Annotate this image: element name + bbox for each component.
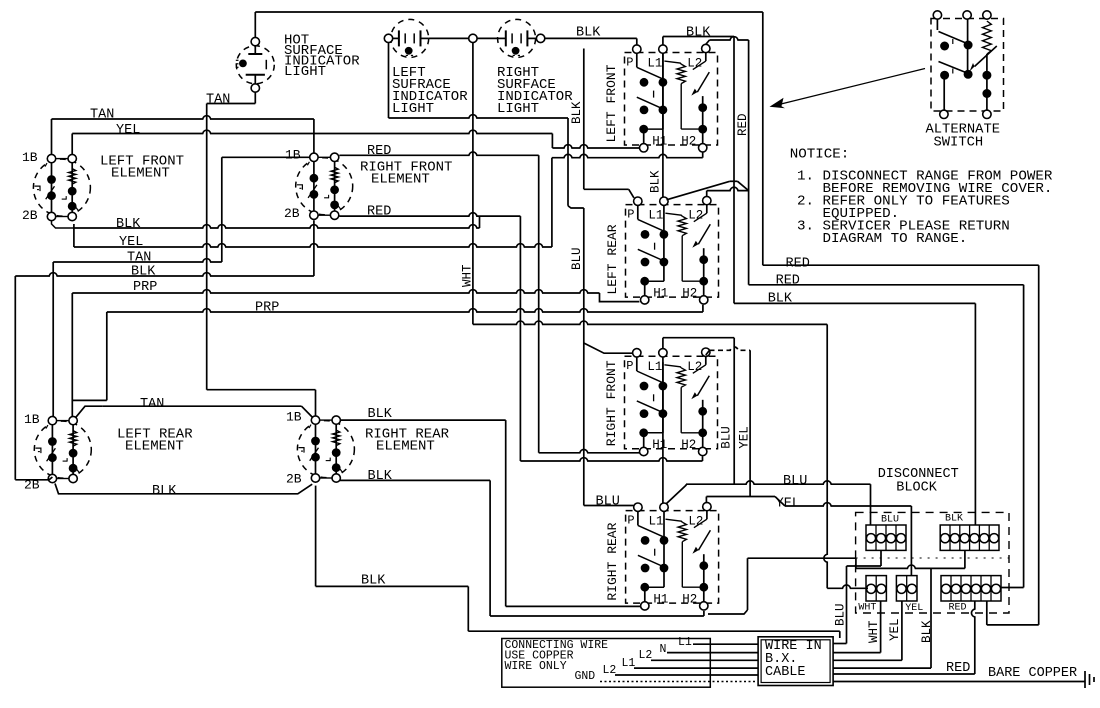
svg-text:H1: H1	[653, 593, 668, 607]
label WIRE IN B.X. CABLE	[765, 639, 822, 680]
label BLU	[783, 474, 807, 489]
wire BLK from L1 to right bus	[663, 37, 734, 304]
svg-text:CABLE: CABLE	[765, 665, 806, 680]
svg-text:TAN: TAN	[206, 93, 230, 108]
wire TAN LR to RR element	[75, 406, 312, 418]
label BLU	[881, 515, 899, 526]
svg-text:BLOCK: BLOCK	[896, 480, 937, 495]
svg-text:ELEMENT: ELEMENT	[111, 165, 170, 181]
label BLK	[131, 264, 156, 279]
wire RED riser	[833, 601, 975, 674]
svg-text:RED: RED	[946, 661, 970, 676]
disconnect block outline	[856, 512, 1009, 613]
svg-text:TAN: TAN	[140, 397, 164, 412]
wire YEL 2B to LF H2	[74, 228, 552, 247]
label BLK	[361, 574, 386, 589]
left rear element	[34, 416, 91, 482]
svg-text:WHT: WHT	[461, 264, 475, 287]
svg-text:L1: L1	[678, 636, 692, 649]
wire PRP to LR H1	[72, 290, 639, 417]
wire L2b cable	[615, 674, 758, 676]
svg-text:H1: H1	[652, 135, 667, 149]
label BLK	[576, 26, 601, 41]
label TAN	[90, 108, 114, 123]
label L2	[603, 664, 617, 677]
svg-text:ELEMENT: ELEMENT	[371, 171, 430, 187]
label RED	[776, 273, 800, 288]
svg-text:P: P	[626, 359, 633, 373]
svg-text:PRP: PRP	[133, 280, 157, 295]
label GND	[575, 670, 596, 683]
wire YEL H2 link	[552, 152, 703, 247]
wire L2 cable	[651, 659, 758, 661]
right rear element	[297, 416, 354, 482]
label BLK	[686, 26, 711, 41]
wire RED 1B to RF H1 feed	[339, 152, 538, 453]
label HOT SURFACE INDICATOR LIGHT	[284, 32, 360, 80]
label RED	[946, 661, 970, 676]
label YEL vertical	[737, 426, 751, 449]
svg-text:3.: 3.	[797, 218, 814, 234]
terminal left light	[384, 34, 392, 42]
label BLU vertical	[570, 247, 584, 270]
wire N cable	[667, 652, 758, 654]
label WHT vertical	[867, 620, 881, 643]
label YEL	[116, 123, 140, 138]
label WHT vertical	[461, 264, 475, 287]
svg-text:RIGHT REAR: RIGHT REAR	[605, 522, 620, 600]
svg-text:BLK: BLK	[368, 407, 393, 422]
wire LR L2 feed to RED riser	[707, 187, 749, 196]
wire TAN from hot light to bus	[207, 92, 256, 390]
label DISCONNECT BLOCK	[878, 467, 959, 496]
switch block LEFT REAR	[605, 196, 719, 304]
svg-text:WHT: WHT	[867, 620, 881, 643]
wire TAN bus corner to RR 1B	[207, 390, 316, 416]
wire GND cable	[600, 681, 758, 683]
svg-text:L2: L2	[688, 208, 703, 222]
wire RED riser from LF L2	[706, 37, 749, 285]
wire YEL from RR L2 to strip	[706, 497, 911, 576]
svg-text:BLU: BLU	[881, 515, 899, 526]
svg-text:LEFT FRONT: LEFT FRONT	[604, 64, 619, 142]
label 2B	[284, 206, 300, 221]
label RIGHT SURFACE INDICATOR LIGHT	[497, 65, 573, 117]
wire BLU to RR P	[584, 505, 634, 507]
svg-text:L2: L2	[688, 515, 703, 529]
svg-text:L1: L1	[647, 56, 662, 70]
label 2B	[22, 208, 38, 223]
svg-text:LIGHT: LIGHT	[284, 64, 326, 80]
wire YEL cable right	[833, 659, 902, 661]
label BLU vertical	[834, 603, 848, 626]
svg-text:2B: 2B	[286, 472, 302, 487]
svg-text:BLK: BLK	[920, 620, 934, 643]
wire WHT into strip	[827, 585, 868, 588]
wire RED2 bus	[749, 285, 1024, 588]
svg-text:BLK: BLK	[152, 484, 177, 499]
label N	[660, 643, 667, 656]
svg-text:H2: H2	[682, 593, 697, 607]
svg-text:1B: 1B	[286, 410, 302, 425]
wire TAN to front elements	[52, 116, 314, 155]
svg-text:RED: RED	[736, 113, 750, 136]
switch block RIGHT REAR	[605, 502, 719, 610]
svg-text:BLU: BLU	[570, 247, 584, 270]
label LEFT REAR ELEMENT	[117, 426, 193, 454]
label BLK vertical	[570, 101, 584, 124]
svg-text:L1: L1	[648, 208, 663, 222]
wire BLK drop jog	[568, 118, 584, 208]
svg-text:TAN: TAN	[127, 250, 151, 265]
wire WHT riser	[880, 601, 882, 653]
label YEL vertical	[888, 618, 902, 641]
label PRP	[133, 280, 157, 295]
svg-text:L2: L2	[687, 360, 702, 374]
svg-text:P: P	[626, 56, 633, 70]
ground symbol	[1085, 671, 1094, 688]
label BLK vertical	[649, 170, 663, 193]
wire BLK bus to disconnect	[734, 303, 975, 525]
label TAN	[140, 397, 164, 412]
svg-text:BLK: BLK	[768, 291, 793, 306]
svg-text:BLK: BLK	[649, 170, 663, 193]
wire L1 column RF to RR	[662, 362, 664, 503]
wire BLK to rear elements	[15, 220, 314, 480]
svg-text:H2: H2	[681, 438, 696, 452]
svg-text:1B: 1B	[285, 148, 301, 163]
label YEL	[905, 603, 923, 614]
svg-text:LIGHT: LIGHT	[392, 101, 434, 117]
svg-text:L2: L2	[603, 664, 617, 677]
label RIGHT REAR ELEMENT	[365, 426, 450, 454]
label 1B	[24, 412, 40, 427]
svg-text:LIGHT: LIGHT	[497, 101, 539, 117]
svg-text:GND: GND	[575, 670, 596, 683]
switch block RIGHT FRONT	[604, 348, 718, 456]
wire LF P to LR P	[584, 49, 634, 198]
label WHT	[858, 603, 876, 614]
label BLK	[368, 469, 393, 484]
svg-text:ELEMENT: ELEMENT	[376, 438, 435, 454]
svg-text:BLK: BLK	[116, 217, 141, 232]
svg-text:P: P	[627, 208, 634, 222]
label 1B	[286, 410, 302, 425]
label BLU vertical	[719, 426, 733, 449]
svg-text:WHT: WHT	[858, 603, 876, 614]
connecting wire box	[502, 639, 711, 688]
label TAN	[127, 250, 151, 265]
terminal strip YEL	[896, 576, 917, 601]
right front element	[296, 153, 353, 219]
svg-text:H1: H1	[653, 287, 668, 301]
svg-text:1B: 1B	[22, 150, 38, 165]
wire center WHT bus	[472, 43, 474, 325]
svg-text:BLU: BLU	[596, 494, 620, 509]
svg-text:BLU: BLU	[783, 474, 807, 489]
terminal strip BLU	[866, 525, 906, 550]
wire branch to RF P diag	[584, 343, 633, 353]
svg-text:BLK: BLK	[576, 26, 601, 41]
svg-text:YEL: YEL	[888, 618, 902, 641]
left surface indicator light	[391, 19, 429, 57]
svg-text:TAN: TAN	[90, 108, 114, 123]
label 2B	[286, 472, 302, 487]
svg-text:BLK: BLK	[131, 264, 156, 279]
terminal strip RED	[941, 576, 1001, 601]
wire BLU strip drop to cable	[833, 550, 881, 643]
wire L1 column LF to LR	[662, 53, 664, 197]
label YEL	[119, 235, 143, 250]
svg-text:1.: 1.	[797, 168, 814, 184]
svg-text:RED: RED	[949, 603, 967, 614]
svg-text:BLK: BLK	[570, 101, 584, 124]
svg-text:BLU: BLU	[719, 426, 733, 449]
wire LR L1 diagonal	[667, 181, 749, 200]
label CONNECTING WIRE USE COPPER WIRE ONLY	[505, 639, 609, 673]
label BLK vertical	[920, 620, 934, 643]
wire RED 2B to RF H2 feed	[339, 213, 520, 461]
svg-text:WIRE ONLY: WIRE ONLY	[505, 660, 567, 673]
svg-text:BLU: BLU	[834, 603, 848, 626]
wire right light to LF block P	[536, 34, 637, 45]
label L1	[678, 636, 692, 649]
wire RF L2 to YEL col	[706, 347, 750, 497]
switch block LEFT FRONT	[604, 44, 718, 152]
wire PRP2 to LR H2	[72, 305, 703, 401]
label L1	[622, 657, 636, 670]
svg-text:BLK: BLK	[368, 469, 393, 484]
right surface indicator light	[498, 19, 536, 57]
svg-text:1B: 1B	[24, 412, 40, 427]
label BLK	[945, 514, 963, 525]
label BLU	[596, 494, 620, 509]
svg-text:RED: RED	[367, 144, 391, 159]
svg-text:BLK: BLK	[945, 514, 963, 525]
svg-text:H1: H1	[652, 438, 667, 452]
wire 1B link to RF element	[222, 157, 310, 262]
svg-text:L2: L2	[639, 649, 653, 662]
wire YEL riser	[901, 601, 903, 660]
terminal strip BLK	[940, 525, 999, 550]
wire BLK cable right	[833, 667, 931, 669]
wire bare copper	[833, 681, 1085, 683]
wire between lights with junction node	[429, 34, 498, 42]
svg-text:L1: L1	[649, 515, 664, 529]
wire TAN to left rear	[53, 259, 222, 417]
label RIGHT FRONT ELEMENT	[360, 159, 452, 187]
svg-text:L1: L1	[647, 360, 662, 374]
label TAN	[206, 93, 230, 108]
wire WHT cable right	[833, 652, 881, 654]
svg-text:H2: H2	[681, 135, 696, 149]
label NOTICE	[790, 147, 1053, 247]
label RED	[367, 144, 391, 159]
label BLK	[368, 407, 393, 422]
hot surface indicator light	[236, 37, 274, 92]
label L2	[639, 649, 653, 662]
wire BLK LR 2B to RR element	[55, 484, 312, 494]
wire RF L1 riser BLU	[663, 338, 734, 485]
wire BLU bus to RR P	[583, 208, 585, 506]
svg-text:H2: H2	[682, 287, 697, 301]
wire light box left and bottom	[389, 43, 569, 118]
svg-text:YEL: YEL	[116, 123, 140, 138]
svg-text:RIGHT FRONT: RIGHT FRONT	[604, 360, 619, 446]
label 1B	[285, 148, 301, 163]
svg-text:BLK: BLK	[361, 574, 386, 589]
wire RED H1 link	[539, 449, 640, 452]
label RED	[367, 204, 391, 219]
wire top bus from hot light to right edge	[255, 12, 763, 265]
wire RED1 bus	[763, 265, 1039, 625]
label PRP	[255, 300, 279, 315]
label YEL	[776, 496, 800, 511]
svg-text:NOTICE:: NOTICE:	[790, 147, 850, 163]
label BARE COPPER	[988, 666, 1077, 681]
label 1B	[22, 150, 38, 165]
label RED vertical	[736, 113, 750, 136]
svg-text:ELEMENT: ELEMENT	[125, 438, 184, 454]
svg-text:BARE COPPER: BARE COPPER	[988, 666, 1077, 681]
terminal strip WHT	[866, 576, 886, 601]
svg-text:YEL: YEL	[905, 603, 923, 614]
wire BLK 2B bus	[52, 216, 480, 228]
wire RED H2 link	[520, 456, 702, 461]
svg-text:L1: L1	[622, 657, 636, 670]
left front element	[33, 154, 90, 220]
svg-text:RED: RED	[367, 204, 391, 219]
svg-text:2B: 2B	[284, 206, 300, 221]
svg-text:L2: L2	[687, 56, 702, 70]
wire L1b cable	[634, 667, 758, 669]
arrow to alternate switch	[770, 69, 926, 109]
wire BLK RR 2B to RR H2	[340, 480, 704, 616]
label RED	[949, 603, 967, 614]
svg-text:BLK: BLK	[686, 26, 711, 41]
label BLK	[116, 217, 141, 232]
wire RR H2 branch to disconnect BLK	[708, 550, 965, 668]
wire YEL H1 link	[552, 145, 639, 148]
svg-text:SWITCH: SWITCH	[934, 136, 984, 151]
label LEFT SUFRACE INDICATOR LIGHT	[392, 65, 468, 117]
svg-text:DIAGRAM TO RANGE.: DIAGRAM TO RANGE.	[823, 231, 968, 247]
wire BLK bottom run to cable	[316, 486, 840, 638]
wire BLU from RR L1 to strip	[666, 481, 871, 525]
alternate switch	[931, 11, 1004, 119]
svg-text:YEL: YEL	[119, 235, 143, 250]
svg-text:LEFT REAR: LEFT REAR	[605, 224, 620, 294]
svg-text:YEL: YEL	[776, 496, 800, 511]
label LEFT FRONT ELEMENT	[100, 153, 184, 181]
label RED	[786, 256, 810, 271]
label BLK	[768, 291, 793, 306]
wire BLK RR 1B to RR H1	[340, 420, 641, 606]
wire in BX cable box	[758, 637, 833, 686]
svg-text:N: N	[660, 643, 667, 656]
label ALTERNATE SWITCH	[926, 123, 1001, 151]
svg-text:2B: 2B	[22, 208, 38, 223]
svg-text:P: P	[627, 514, 634, 528]
svg-text:RED: RED	[786, 256, 810, 271]
wire WHT to disconnect	[473, 321, 827, 588]
wire YEL to LF H1	[72, 130, 552, 154]
svg-text:PRP: PRP	[255, 300, 279, 315]
label 2B	[24, 478, 40, 493]
svg-text:2.: 2.	[797, 193, 814, 209]
svg-text:RED: RED	[776, 273, 800, 288]
wire L1 cable	[693, 643, 758, 645]
label BLK	[152, 484, 177, 499]
